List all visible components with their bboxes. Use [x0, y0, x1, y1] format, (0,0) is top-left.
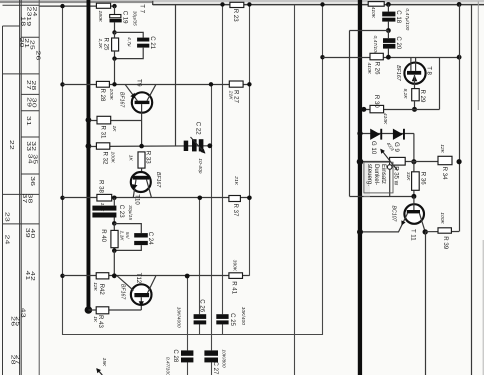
svg-text:22: 22: [9, 140, 14, 150]
svg-text:180K: 180K: [97, 11, 103, 23]
svg-text:29: 29: [26, 97, 31, 107]
svg-text:R 27: R 27: [232, 90, 239, 103]
svg-text:C 26: C 26: [199, 299, 206, 312]
svg-text:33: 33: [26, 141, 31, 151]
svg-text:C 18: C 18: [395, 10, 402, 23]
svg-text:35: 35: [32, 154, 37, 164]
svg-text:31: 31: [26, 116, 31, 126]
svg-text:C 27: C 27: [212, 362, 219, 375]
svg-text:R 28: R 28: [99, 89, 106, 102]
svg-text:34: 34: [27, 154, 32, 164]
svg-text:25: 25: [15, 316, 20, 326]
svg-text:R 40: R 40: [100, 229, 107, 242]
svg-text:23: 23: [26, 7, 31, 17]
svg-text:1,1K: 1,1K: [119, 231, 125, 242]
svg-text:26: 26: [35, 51, 40, 61]
svg-text:38: 38: [27, 194, 32, 204]
svg-text:R 37: R 37: [232, 204, 239, 217]
svg-text:36: 36: [30, 176, 35, 186]
svg-text:R 38: R 38: [98, 180, 105, 193]
svg-text:25: 25: [29, 40, 34, 50]
svg-text:28: 28: [10, 355, 15, 365]
svg-text:C 28: C 28: [172, 349, 179, 362]
svg-text:C 25: C 25: [229, 313, 236, 326]
svg-text:39: 39: [25, 228, 30, 238]
svg-text:410K: 410K: [366, 63, 372, 75]
svg-text:R 35 w: R 35 w: [393, 166, 400, 186]
svg-text:410K: 410K: [382, 113, 388, 125]
svg-text:21K: 21K: [233, 175, 239, 185]
svg-text:BC107: BC107: [390, 206, 396, 223]
svg-text:C 20: C 20: [395, 36, 402, 49]
svg-text:0,47/1000: 0,47/1000: [165, 357, 171, 375]
svg-text:5n/: 5n/: [124, 232, 130, 239]
svg-text:R 29: R 29: [419, 90, 426, 103]
svg-text:C 24: C 24: [147, 232, 154, 245]
svg-text:R 23: R 23: [232, 9, 239, 22]
svg-text:24: 24: [4, 235, 9, 245]
svg-text:T9: T9: [136, 79, 143, 87]
svg-text:Einsatz: Einsatz: [380, 164, 387, 184]
svg-text:G 10: G 10: [370, 141, 377, 155]
svg-text:C 23: C 23: [118, 205, 125, 218]
svg-text:R 34: R 34: [441, 167, 448, 180]
svg-text:4,7µ: 4,7µ: [126, 37, 132, 47]
svg-text:24: 24: [31, 7, 36, 17]
svg-text:37: 37: [22, 194, 27, 204]
svg-text:C 22: C 22: [195, 122, 202, 135]
svg-text:BF167: BF167: [395, 65, 401, 81]
svg-text:C 21: C 21: [149, 36, 156, 49]
svg-text:R 25: R 25: [102, 38, 109, 51]
svg-text:43: 43: [20, 308, 25, 318]
svg-text:R 33: R 33: [145, 151, 152, 164]
svg-text:C 19: C 19: [122, 11, 129, 24]
svg-text:23: 23: [4, 212, 9, 222]
svg-text:100K: 100K: [110, 152, 116, 164]
svg-text:0,47/100: 0,47/100: [372, 36, 378, 55]
svg-text:30: 30: [31, 98, 36, 108]
svg-text:R 26: R 26: [374, 62, 381, 75]
svg-text:26: 26: [10, 316, 15, 326]
svg-text:12K: 12K: [92, 282, 98, 291]
svg-text:410K: 410K: [370, 7, 376, 19]
svg-text:12K: 12K: [439, 144, 445, 153]
svg-text:T 11: T 11: [409, 229, 416, 241]
svg-text:10K/800: 10K/800: [221, 349, 227, 368]
svg-text:32: 32: [31, 141, 36, 151]
svg-text:10K/4000: 10K/4000: [176, 307, 182, 328]
svg-text:R 32: R 32: [102, 152, 109, 165]
svg-text:31K: 31K: [405, 172, 411, 181]
svg-text:27: 27: [26, 80, 31, 90]
svg-text:8,2K: 8,2K: [402, 89, 408, 100]
svg-text:30µ/15: 30µ/15: [127, 205, 133, 220]
svg-text:41: 41: [25, 271, 30, 281]
svg-text:18: 18: [20, 16, 25, 26]
svg-text:42: 42: [30, 271, 35, 281]
svg-text:10K/400: 10K/400: [240, 307, 246, 326]
svg-text:100K: 100K: [108, 89, 114, 101]
svg-text:BF167: BF167: [155, 172, 161, 188]
svg-text:R 39: R 39: [442, 236, 449, 249]
svg-text:19: 19: [25, 16, 30, 26]
svg-text:0,47µ/100: 0,47µ/100: [404, 8, 410, 30]
svg-text:Dunkel-: Dunkel-: [373, 164, 380, 185]
svg-text:1,2K: 1,2K: [97, 39, 103, 50]
svg-text:10-40p: 10-40p: [197, 158, 203, 174]
svg-text:R 36: R 36: [419, 172, 426, 185]
svg-text:R 31: R 31: [100, 126, 107, 139]
svg-text:T 8: T 8: [426, 66, 433, 75]
svg-text:R42: R42: [98, 284, 105, 296]
svg-text:1K: 1K: [111, 126, 117, 133]
svg-text:BF167: BF167: [120, 284, 126, 300]
svg-text:28: 28: [31, 81, 36, 91]
svg-text:390K: 390K: [232, 260, 238, 272]
svg-text:1K: 1K: [128, 155, 134, 162]
svg-text:T 7: T 7: [138, 4, 145, 13]
svg-text:T10: T10: [133, 194, 140, 205]
svg-text:20: 20: [19, 38, 24, 48]
svg-text:R 30: R 30: [373, 95, 380, 108]
svg-text:15K: 15K: [101, 358, 107, 367]
svg-text:100K: 100K: [439, 212, 445, 224]
svg-text:R 41: R 41: [231, 281, 238, 294]
svg-text:27: 27: [15, 355, 20, 365]
svg-text:T12: T12: [135, 273, 142, 284]
svg-text:40: 40: [30, 229, 35, 239]
svg-text:steuerg.: steuerg.: [366, 164, 373, 186]
svg-text:21: 21: [23, 38, 28, 48]
svg-text:30µ/35: 30µ/35: [132, 11, 138, 26]
svg-text:R 43: R 43: [97, 315, 104, 328]
svg-text:BF167: BF167: [119, 92, 125, 108]
